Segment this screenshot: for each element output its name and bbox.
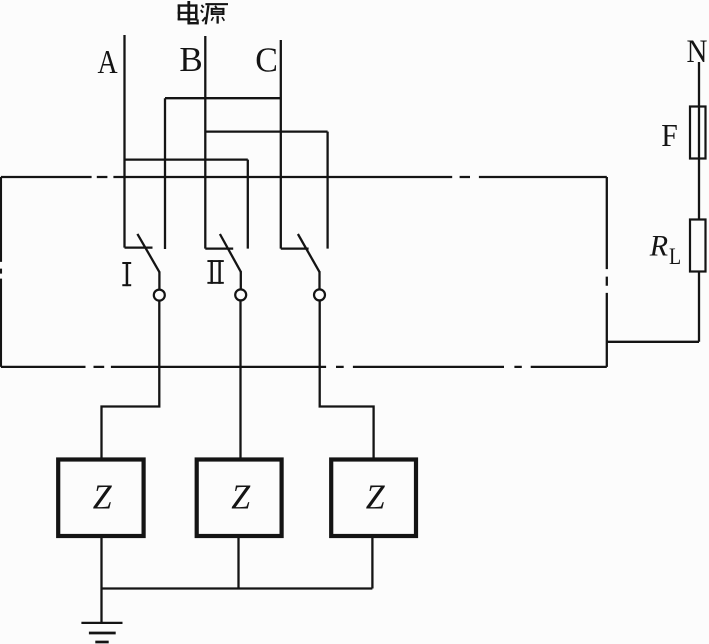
svg-text:B: B [179,40,202,79]
wire crossover A-branch horizontal [125,158,248,160]
wire crossover B-branch horizontal [205,130,327,132]
label I (switch I, hand-drawn serif) [122,262,131,286]
boundary box bottom edge (chain line) [1,366,607,368]
wire switch III to Z3 [320,300,374,458]
switch II moving contact circle [235,289,246,300]
wire phase C vertical [280,40,282,249]
boundary box right edge (chain line) [606,177,608,367]
源 cliff radical [205,3,228,5]
源 water radical [201,4,205,8]
wire crossover C-branch horizontal [165,97,281,99]
wire Z1 bottom to ground [100,538,102,623]
svg-text:R: R [649,230,668,263]
svg-text:L: L [669,244,681,270]
fuse F body [690,107,706,159]
wire phase A vertical [123,35,125,248]
switch III blade [298,234,320,272]
wire neutral N vertical top [698,62,700,219]
switch II fixed contact foot [205,247,233,249]
wire switch I to Z1 [102,300,160,457]
switch I blade [137,234,159,273]
impedance Z3 box [331,460,416,537]
switch III moving contact circle [314,289,325,300]
switch III fixed contact foot [281,247,309,249]
svg-text:Z: Z [231,478,251,517]
wire Z3 bottom [371,538,373,589]
switch II blade stub [240,271,242,289]
wire switch II to Z2 [239,300,241,458]
svg-text:N: N [687,32,708,69]
switch I blade stub [158,272,160,291]
wire crossover A-branch vertical [247,160,249,249]
impedance Z1 box [58,460,143,537]
wire neutral below RL [698,272,700,342]
label II (switch II, hand-drawn serif) [207,260,223,284]
svg-text:Z: Z [93,478,113,517]
svg-text:A: A [98,42,119,80]
svg-text:Z: Z [366,478,386,517]
resistor RL body [690,220,706,272]
svg-text:C: C [255,41,278,80]
wire crossover B-branch vertical [326,132,328,249]
switch I fixed contact foot [125,246,153,248]
ground symbol [81,622,122,624]
switch I moving contact circle [154,290,165,301]
boundary box left edge (chain line) [0,177,2,367]
switch III blade stub [318,271,320,289]
wire neutral horizontal into box [607,341,699,343]
wire crossover C-branch vertical [164,98,166,249]
switch II blade [220,234,241,272]
电 box [178,4,181,20]
wire Z2 bottom [237,538,239,589]
源 small component [217,16,219,24]
svg-text:F: F [661,117,678,153]
label 电源 (hand-drawn strokes) [178,1,228,24]
impedance Z2 box [197,460,282,537]
电 center vertical + hook [187,1,190,24]
wire phase B vertical [204,36,206,249]
源 white component [214,5,217,9]
boundary box top edge (chain line) [1,176,607,178]
wire ground bus [102,587,373,589]
